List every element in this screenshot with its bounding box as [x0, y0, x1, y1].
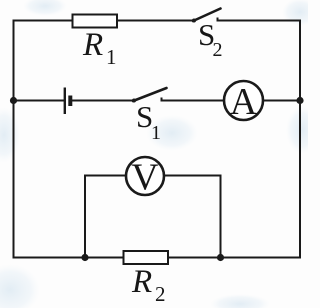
- node junction bottom right: [217, 254, 224, 261]
- wire voltmeter left vertical: [84, 175, 86, 259]
- wire battery to S1: [71, 100, 134, 102]
- svg-text:A: A: [230, 81, 258, 123]
- ammeter A: [224, 81, 263, 123]
- battery cell: [65, 88, 71, 115]
- svg-text:1: 1: [151, 122, 161, 144]
- node junction bottom left: [81, 254, 88, 261]
- svg-text:2: 2: [213, 39, 223, 61]
- wire left vertical: [13, 20, 15, 259]
- svg-text:2: 2: [155, 282, 166, 306]
- switch S2: [192, 9, 223, 62]
- wire top left segment: [13, 20, 195, 22]
- node junction left battery: [10, 97, 17, 104]
- resistor R1: [73, 15, 118, 70]
- svg-text:1: 1: [106, 45, 117, 69]
- wire middle left: [14, 100, 65, 102]
- wire voltmeter horizontal: [85, 175, 221, 177]
- node junction right ammeter: [296, 97, 303, 104]
- voltmeter V: [126, 157, 164, 199]
- wire ammeter to right: [262, 100, 300, 102]
- svg-text:R: R: [131, 264, 152, 300]
- wire top right segment: [217, 20, 301, 22]
- resistor R2: [124, 251, 169, 306]
- wire right vertical: [299, 20, 301, 259]
- switch S1: [132, 88, 167, 144]
- wire bottom: [13, 257, 302, 259]
- wire voltmeter right vertical: [220, 175, 222, 259]
- svg-text:V: V: [131, 157, 159, 199]
- wire S1 to ammeter: [161, 100, 225, 102]
- svg-text:R: R: [82, 27, 103, 63]
